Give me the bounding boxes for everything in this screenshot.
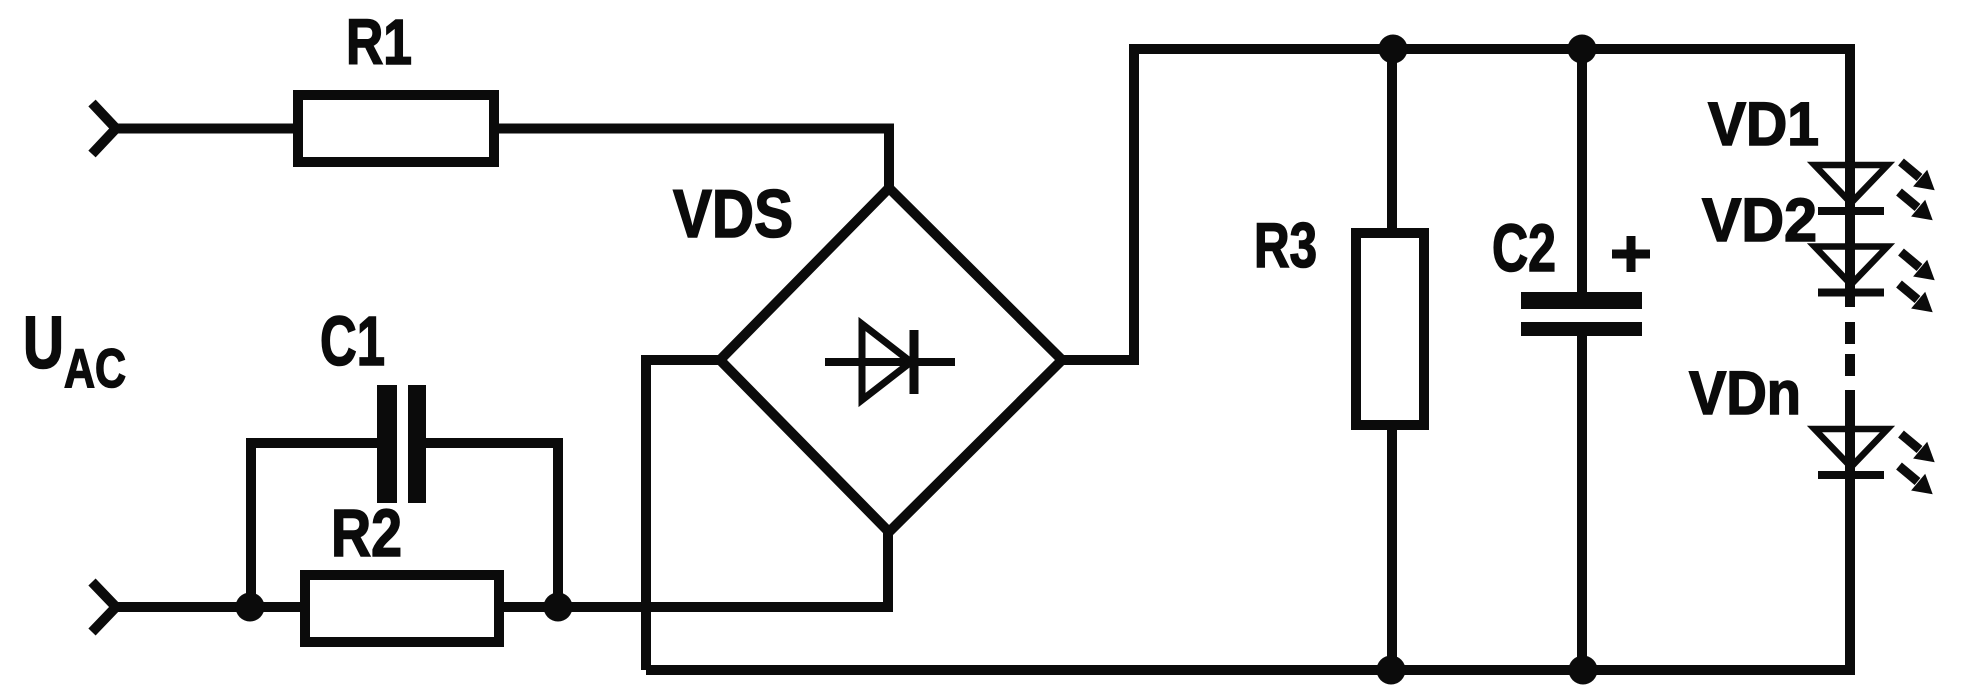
wire node B to bridge bottom vertex (501, 528, 888, 607)
wire terminal to node A (114, 602, 302, 612)
VDn light emission arrow 1 (1901, 434, 1935, 462)
wire bridge left vertex to bottom rail (646, 360, 722, 670)
junction node B dot (C1/R2 right) (544, 593, 573, 622)
VD2 light emission arrow 1 (1901, 252, 1935, 280)
junction dot bottom rail R3 (1377, 656, 1406, 685)
svg-text:VDn: VDn (1689, 359, 1801, 427)
LED VD1 (1815, 165, 1888, 211)
capacitor C1 right plate (408, 385, 426, 503)
VD1 light emission arrow 2 (1899, 192, 1933, 220)
wire bridge right vertex up to top rail (DC plus) (1060, 49, 1850, 360)
LED VDn (1815, 429, 1888, 475)
junction dot bottom rail C2 (1569, 656, 1598, 685)
resistor R1 (298, 95, 494, 162)
input terminal top (U_AC phase) (92, 103, 116, 154)
svg-text:VD2: VD2 (1702, 186, 1817, 254)
wire top rail to C2 top plate (1577, 49, 1587, 296)
junction node A dot (C1/R2 left) (236, 593, 265, 622)
wire R3 to bottom rail (1387, 425, 1397, 670)
svg-text:VD1: VD1 (1708, 90, 1819, 158)
svg-text:VDS: VDS (673, 176, 793, 252)
junction dot top rail R3 (1379, 35, 1408, 64)
wire VD1 to VD2 (1845, 247, 1855, 307)
VD2 light emission arrow 2 (1899, 284, 1933, 312)
diode symbol inside VDS: triangle (862, 324, 911, 400)
wire C2 bottom plate to bottom rail (1577, 334, 1587, 670)
resistor R2 (305, 575, 499, 642)
wire node A up to C1 left plate (251, 443, 379, 607)
svg-text:C1: C1 (320, 302, 385, 380)
bottom rail wire (DC minus) (646, 665, 1855, 675)
plus polarity mark of C2: horizontal stroke (1612, 250, 1650, 259)
svg-text:R3: R3 (1254, 211, 1317, 281)
resistor R3 (1356, 233, 1424, 425)
wire terminal to R1 (114, 124, 297, 134)
dashed wire segment (omitted LEDs) dash 1 (1845, 322, 1855, 344)
dashed wire segment (omitted LEDs) dash 2 (1845, 354, 1855, 376)
plus polarity mark of C2: vertical stroke (1627, 236, 1636, 272)
capacitor C1 left plate (377, 385, 397, 503)
wire C1 right plate down to node B (426, 443, 558, 607)
capacitor C2 bottom plate (1521, 322, 1642, 336)
svg-text:R2: R2 (331, 496, 402, 571)
wire top rail to R3 (1387, 49, 1397, 235)
wire R1 to bridge top vertex (495, 129, 889, 193)
svg-text:AC: AC (64, 337, 126, 399)
input terminal bottom (U_AC neutral) (92, 582, 116, 632)
junction dot top rail C2 (1568, 35, 1597, 64)
wire VDn down to bottom rail (1845, 430, 1855, 675)
bridge rectifier VDS diamond (720, 188, 1062, 532)
svg-text:C2: C2 (1492, 211, 1556, 286)
wire top rail corner down to VD1 (1845, 163, 1855, 249)
svg-text:R1: R1 (346, 6, 412, 78)
LED VD2 (1815, 247, 1888, 293)
wire dash end to VDn (1845, 390, 1855, 432)
capacitor C2 top plate (1521, 292, 1642, 309)
VD1 light emission arrow 1 (1901, 162, 1935, 190)
diode symbol inside VDS: cathode bar (910, 330, 919, 394)
VDn light emission arrow 2 (1899, 466, 1933, 494)
diode symbol inside VDS: anode line (825, 358, 955, 366)
svg-text:U: U (23, 301, 64, 384)
